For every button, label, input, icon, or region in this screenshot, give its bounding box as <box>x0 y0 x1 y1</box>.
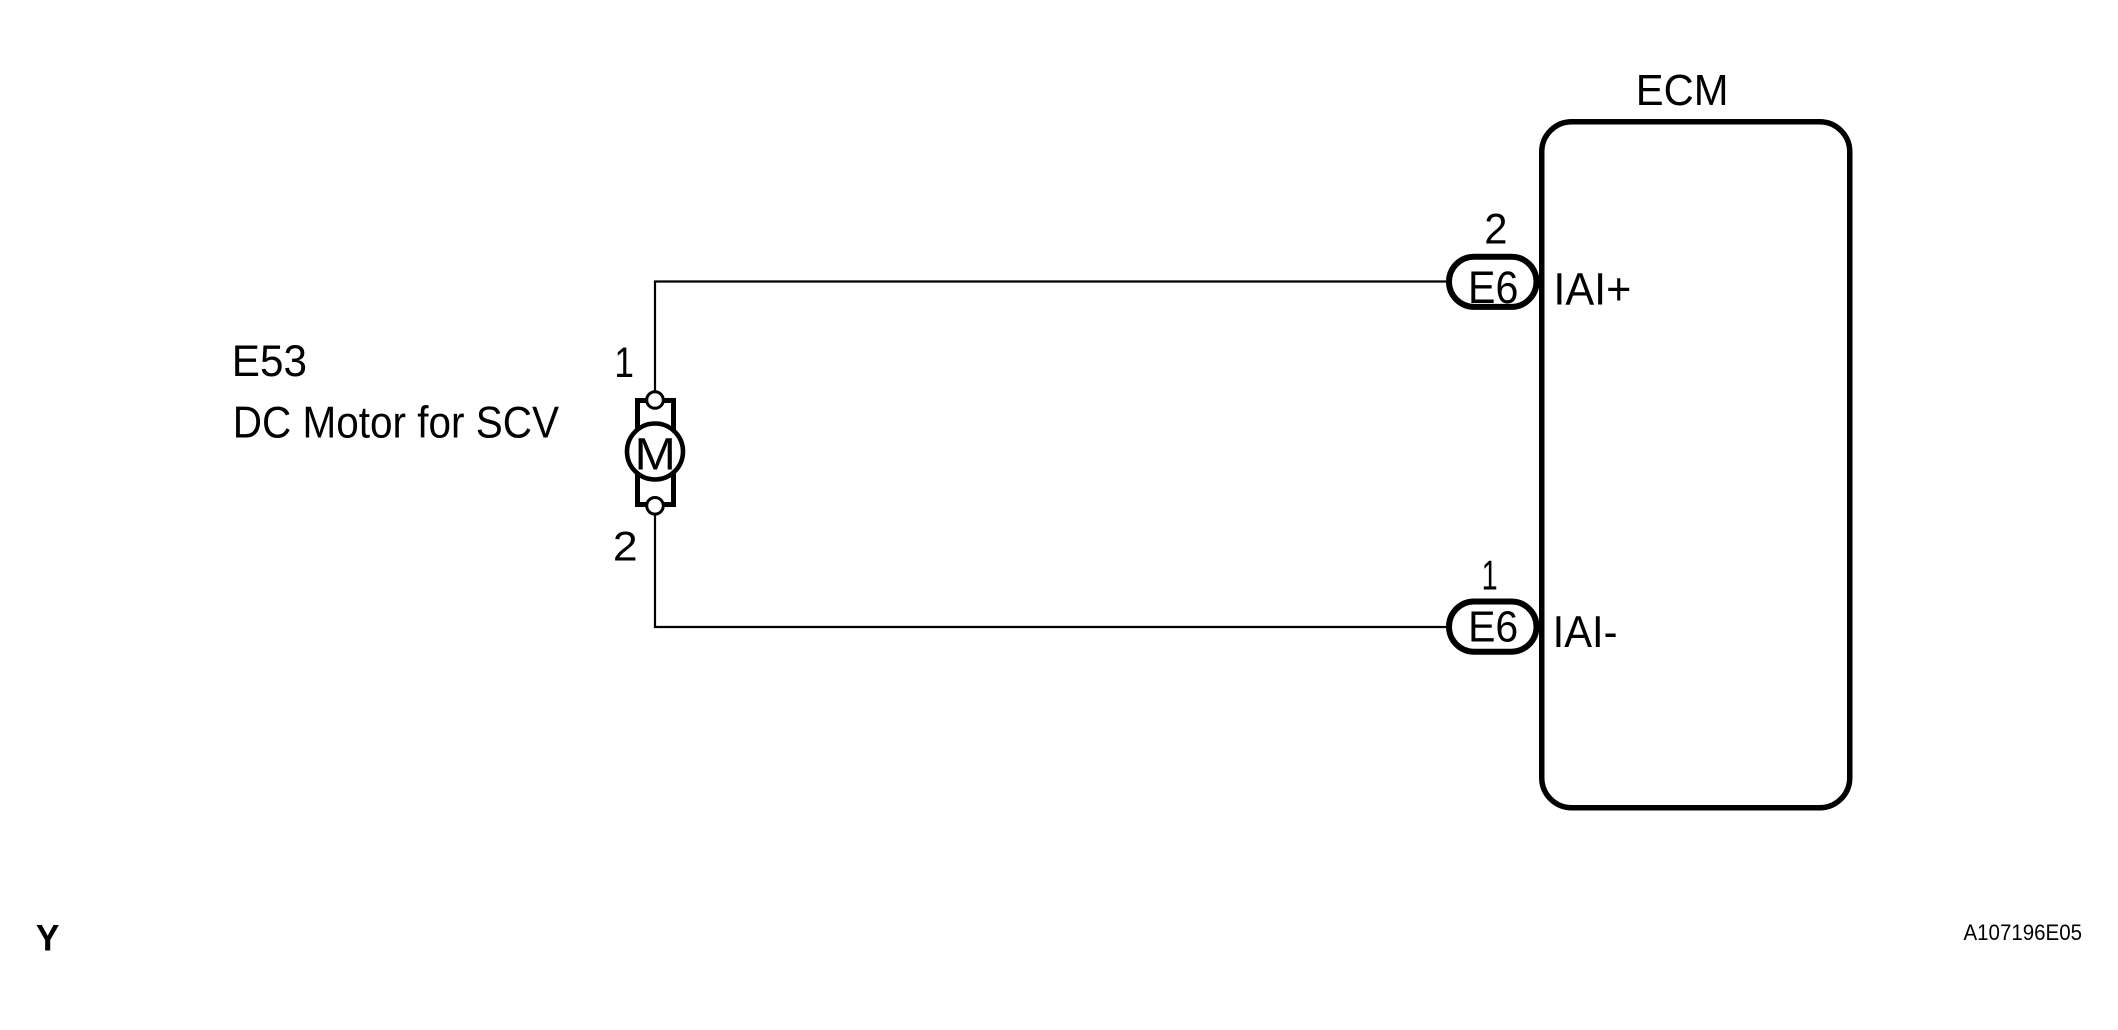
svg-text:M: M <box>634 428 675 479</box>
svg-text:ECM: ECM <box>1636 67 1729 115</box>
svg-text:E6: E6 <box>1468 604 1518 652</box>
svg-text:2: 2 <box>1484 206 1507 254</box>
svg-text:E6: E6 <box>1468 262 1518 313</box>
svg-text:Y: Y <box>36 917 60 959</box>
svg-text:IAI-: IAI- <box>1553 606 1618 657</box>
svg-text:1: 1 <box>614 340 634 387</box>
svg-text:1: 1 <box>1482 552 1498 599</box>
svg-text:DC Motor for SCV: DC Motor for SCV <box>233 399 559 448</box>
svg-text:IAI+: IAI+ <box>1553 263 1631 314</box>
svg-text:E53: E53 <box>232 335 307 386</box>
svg-text:2: 2 <box>613 523 638 570</box>
svg-text:A107196E05: A107196E05 <box>1963 920 2082 945</box>
